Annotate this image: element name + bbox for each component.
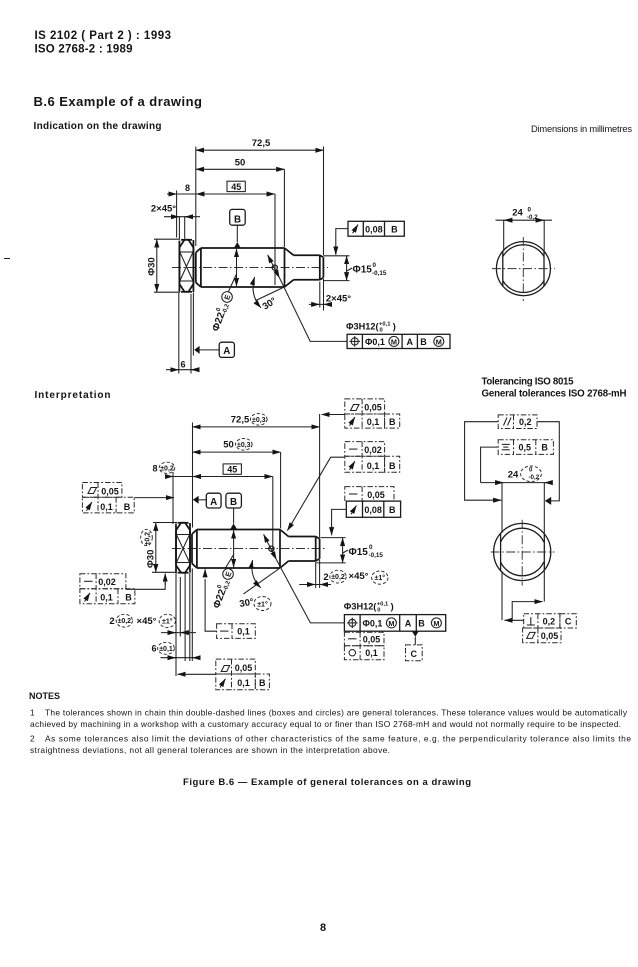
svg-text:Φ0,1: Φ0,1 [363,618,383,628]
svg-text:B: B [391,225,398,235]
svg-text:0,02: 0,02 [98,577,116,587]
svg-text:0,05: 0,05 [367,490,385,500]
label dia 3 H12 [346,322,396,334]
boxed dimension 45 interpretation [223,464,241,475]
svg-text:0,1: 0,1 [367,417,380,427]
svg-text:Indication on the drawing: Indication on the drawing [34,121,162,132]
svg-text:-0,15: -0,15 [369,552,384,559]
svg-text:M: M [391,337,397,346]
svg-text:B: B [389,505,396,515]
svg-text:A: A [223,346,230,357]
hole dia 3 interpretation [269,546,274,551]
svg-text:B: B [259,678,266,688]
svg-text:C: C [411,649,418,659]
svg-text:As some tolerances also limit: As some tolerances also limit the deviat… [45,734,631,744]
svg-text:0,05: 0,05 [235,663,253,673]
svg-text:): ) [391,602,394,612]
frame straightness 0,02 runout 0,1 B right column [287,442,399,531]
svg-text:-0,2: -0,2 [223,580,232,592]
svg-text:A: A [406,337,413,347]
centerline shaft axis interpretation [172,548,325,550]
runout frame 0,08 B [336,221,405,254]
svg-text:2×45°: 2×45° [326,294,351,305]
svg-text:0: 0 [377,608,380,614]
dimension 72,5 [196,138,324,256]
hole axis with arrows interpretation [264,534,277,559]
svg-text:8: 8 [185,183,190,193]
extension line left common interpretation [192,423,194,528]
svg-text:24: 24 [508,470,519,481]
connector symmetry to dimension 24 [481,447,499,483]
svg-text:B: B [125,593,132,603]
svg-text:0,5: 0,5 [518,443,531,453]
svg-text:±0,1: ±0,1 [159,646,173,653]
angle arc 30 interpretation [252,560,261,588]
svg-text:0,08: 0,08 [364,505,382,515]
position frame dia 0,1 M A B M interpretation [344,615,445,632]
svg-text:0,05: 0,05 [363,634,381,644]
frame flatness 0,05 below perpendicularity [523,628,561,643]
label 2x45 top left [151,204,200,239]
svg-text:-0,2: -0,2 [529,474,540,481]
svg-text:±0,2: ±0,2 [118,618,132,625]
svg-text:B: B [124,502,131,512]
flange flat cross marks [180,252,194,281]
svg-text:B: B [541,443,548,453]
dimension 24 0 -0,2 interpretation [481,466,552,533]
connector perpendicularity to right flat below [512,571,544,620]
end view circle top [492,237,555,301]
position frame dia 0,1 M A B M [347,334,450,348]
label 2x45 right [309,279,351,311]
svg-text:×45°: ×45° [137,616,157,627]
svg-text:0,1: 0,1 [100,593,113,603]
svg-text:NOTES: NOTES [29,691,60,701]
dimension 24 top [496,207,553,251]
svg-text:×45°: ×45° [349,571,369,582]
svg-text:±0,2: ±0,2 [144,532,151,546]
svg-text:0,2: 0,2 [543,616,556,626]
stray scan mark left margin [4,258,10,260]
svg-text:24: 24 [512,208,523,219]
svg-text:±1°: ±1° [162,617,173,625]
dimension dia 15 [324,256,387,281]
general tolerance rows straightness 0,05 and circularity 0,1 [344,632,384,660]
svg-text:Φ15: Φ15 [349,547,369,558]
datum label B box [230,209,246,248]
svg-text:straightness deviations, not a: straightness deviations, not all general… [30,745,390,755]
angle ray 30 [256,287,284,300]
svg-text:0,1: 0,1 [237,678,250,688]
dimension 50 +-0,3 [193,439,281,529]
svg-text:A: A [405,618,412,628]
hole axis with arrows [268,255,280,278]
cone section outline interpretation [280,530,289,569]
angle arc 30 [253,277,261,308]
svg-text:M: M [436,337,442,346]
svg-text:E: E [222,293,232,301]
frame straightness 0,02 runout 0,1 B left lower [80,574,165,604]
extension line left common [195,147,197,247]
svg-text:Φ30: Φ30 [146,550,157,568]
svg-text:72,5: 72,5 [231,415,250,426]
label 30 deg [261,295,279,312]
svg-text:C: C [565,616,572,626]
boxed dimension 45 [227,181,245,192]
svg-text:Interpretation: Interpretation [35,390,111,401]
dimension 8 +-0,2 and 45 line interpretation [152,462,272,553]
hole dia 3 [272,265,277,270]
svg-text:-0,2: -0,2 [222,303,231,315]
svg-text:0,1: 0,1 [365,648,378,658]
svg-text:2: 2 [109,616,114,627]
svg-text:-0,2: -0,2 [527,214,538,221]
leader hole to position frame interpretation [276,560,344,623]
svg-text:B.6 Example of a drawing: B.6 Example of a drawing [34,94,203,109]
svg-text:±0,2: ±0,2 [160,465,174,472]
dimension dia 15 interpretation [317,538,384,563]
svg-text:Dimensions in millimetres: Dimensions in millimetres [531,124,632,134]
svg-text:30°: 30° [261,295,279,312]
angle ray 30 interpretation [244,568,281,594]
svg-text:±1°: ±1° [375,574,386,582]
svg-text:±0,3: ±0,3 [252,417,266,424]
svg-text:0,1: 0,1 [100,502,113,512]
dimension 6 +-0,1 interpretation [151,642,198,657]
svg-text:6: 6 [151,644,156,654]
svg-text:72,5: 72,5 [252,138,271,149]
svg-text:50: 50 [235,158,246,169]
frame parallelism 0,2 right view [498,415,537,429]
svg-text:-0,15: -0,15 [372,270,387,277]
svg-text:B: B [230,497,237,508]
flange (head) outline interpretation [176,523,190,573]
extension lines below flange interpretation [176,569,192,677]
svg-text:0: 0 [529,467,533,474]
datum label A box [193,293,234,358]
end view circle interpretation [491,520,555,586]
svg-text:Φ30: Φ30 [147,257,158,275]
svg-text:0: 0 [528,207,532,214]
svg-text:achieved by machining in a wor: achieved by machining in a workshop with… [30,719,621,729]
svg-text:E: E [223,570,233,578]
label 30 deg +-1 interpretation [239,597,271,611]
svg-text:M: M [433,619,439,628]
svg-text:B: B [418,618,425,628]
svg-text:0,2: 0,2 [519,417,532,427]
svg-text:Φ15: Φ15 [353,265,373,276]
svg-text:Φ0,1: Φ0,1 [365,337,385,347]
svg-text:Figure B.6 — Example of genera: Figure B.6 — Example of general toleranc… [183,777,471,788]
flange flat cross marks interpretation [176,535,190,563]
svg-text:B: B [389,417,396,427]
label dia 3 H12 interpretation [344,602,394,614]
svg-text:±0,2: ±0,2 [331,574,345,581]
svg-text:B: B [234,214,241,225]
svg-text:General tolerances ISO 2768-mH: General tolerances ISO 2768-mH [482,389,627,400]
svg-text:±0,3: ±0,3 [237,442,251,449]
dimension dia 22 internal [229,249,237,292]
svg-text:Φ3H12(: Φ3H12( [346,322,380,332]
dimension 72,5 +-0,3 [193,414,320,538]
svg-text:A: A [210,497,217,508]
frame straightness 0,1 below part [205,569,255,638]
cylinder dia 15 outline interpretation [289,537,320,562]
svg-text:Tolerancing ISO 8015: Tolerancing ISO 8015 [482,377,575,388]
svg-text:B: B [389,461,396,471]
connector parallelism to right flat datum [537,422,559,505]
datum label B box interpretation [226,493,242,529]
frame flatness 0,05 runout 0,1 B below part [178,659,270,690]
centerline shaft axis [172,267,328,269]
connector parallelism to left flat [465,422,502,501]
frame perpendicularity 0,2 C [502,571,576,628]
frame straightness 0,05 over runout 0,08 B [332,487,401,536]
cylinder dia 15 outline [294,255,324,280]
dimension dia 30 [147,239,181,292]
frame flatness 0,05 runout 0,1 B right column [322,399,400,428]
svg-text:0: 0 [369,544,373,551]
dimension 6 [166,293,200,374]
svg-text:0,05: 0,05 [364,403,382,413]
svg-text:B: B [420,337,427,347]
frame flatness 0,05 runout 0,1 B left [82,483,174,513]
svg-text:0,1: 0,1 [367,461,380,471]
label 2 +-0,2 x45 +-1 left interpretation [109,614,196,632]
svg-text:0,05: 0,05 [101,487,119,497]
svg-text:30°: 30° [239,597,255,610]
svg-text:1: 1 [30,708,35,718]
svg-text:0: 0 [373,262,377,269]
svg-text:0,02: 0,02 [364,445,382,455]
cone section outline [285,248,294,287]
cylinder dia 22 outline interpretation [192,530,280,569]
label dia 22 with E interpretation [210,567,236,610]
svg-text:2: 2 [30,734,35,744]
dimension dia 30 interpretation [141,523,177,573]
svg-text:45: 45 [231,182,241,192]
svg-text:ISO 2768-2 : 1989: ISO 2768-2 : 1989 [35,44,133,56]
dimension dia 22 internal interpretation [226,531,234,568]
svg-text:): ) [393,322,396,332]
svg-text:50: 50 [223,440,234,451]
svg-text:M: M [388,619,394,628]
svg-text:8: 8 [320,922,326,934]
datum label A box interpretation [193,493,221,508]
label 2 +-0,2 x45 +-1 right interpretation [299,560,388,588]
dimension 8 and 45 line [167,183,275,285]
svg-text:The tolerances shown in chain: The tolerances shown in chain thin doubl… [45,708,628,718]
svg-text:8: 8 [152,464,157,474]
flange (head) outline [179,240,193,292]
dimension 50 [196,158,285,248]
leader hole to position frame [280,278,348,342]
label dia 22 with E [209,290,235,333]
svg-text:0,1: 0,1 [237,627,250,637]
svg-text:2: 2 [323,572,328,583]
svg-text:0: 0 [380,328,383,334]
svg-text:2×45°: 2×45° [151,204,176,215]
svg-text:Φ3H12(: Φ3H12( [344,602,378,612]
svg-text:±1°: ±1° [257,600,268,608]
svg-text:45: 45 [227,465,237,475]
svg-text:0,08: 0,08 [365,225,383,235]
svg-text:0,05: 0,05 [541,631,559,641]
svg-text:IS 2102 ( Part 2 ) : 1993: IS 2102 ( Part 2 ) : 1993 [35,30,172,42]
frame symmetry 0,5 B right view [498,440,553,455]
cylinder dia 22 outline [196,248,285,287]
datum C triangle and box [406,631,423,661]
svg-text:6: 6 [180,360,185,370]
